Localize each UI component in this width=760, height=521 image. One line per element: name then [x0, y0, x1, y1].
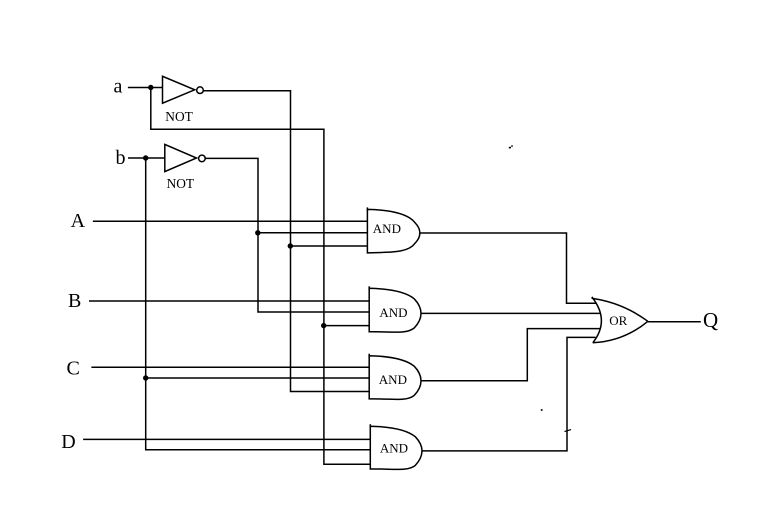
- wire input A: [93, 220, 368, 222]
- svg-text:AND: AND: [379, 372, 407, 387]
- svg-text:B: B: [68, 290, 81, 312]
- svg-text:D: D: [61, 431, 75, 453]
- svg-text:a: a: [114, 76, 123, 98]
- AND gate U2 body: [367, 209, 419, 253]
- inverter NOT2 bubble: [199, 155, 206, 162]
- wire input D: [83, 438, 371, 440]
- wire AND1 output to OR: [420, 233, 597, 303]
- wire NOT1 output to vertical: [203, 91, 369, 392]
- junction b: [143, 155, 148, 160]
- svg-text:C: C: [67, 357, 80, 379]
- AND gate U2 left-edge overshoot: [366, 207, 368, 211]
- AND gate U3 left-edge overshoot: [368, 286, 370, 290]
- wire AND3 output to OR: [421, 329, 600, 381]
- svg-text:AND: AND: [379, 305, 407, 320]
- wire b direct down to AND4: [146, 158, 371, 450]
- stray tick on AND4 wire: [565, 430, 572, 432]
- wire b branch to AND3: [146, 377, 370, 379]
- AND gate U5 body: [370, 426, 422, 469]
- OR gate U6 body: [592, 297, 648, 343]
- junction b' to AND1: [255, 230, 260, 235]
- wire b' branch to AND1: [258, 232, 368, 234]
- junction a' to AND1: [288, 243, 293, 248]
- wire a input: [128, 87, 163, 89]
- svg-text:NOT: NOT: [165, 109, 193, 124]
- stray speck 1: [509, 145, 513, 148]
- inverter NOT2 triangle: [165, 144, 197, 171]
- wire a branch to AND2: [324, 325, 370, 327]
- stray speck 2: [541, 409, 543, 411]
- wire NOT2 output to vertical: [205, 158, 369, 312]
- wire AND2 output to OR: [421, 312, 601, 314]
- junction b to AND3: [143, 375, 148, 380]
- inverter NOT1 bubble: [197, 87, 204, 94]
- wire AND4 output to OR: [422, 337, 596, 451]
- AND gate U5 left-edge overshoot: [369, 424, 371, 428]
- svg-text:Q: Q: [703, 308, 718, 332]
- svg-text:A: A: [71, 210, 86, 232]
- wire OR output: [648, 321, 701, 323]
- wire a direct down and across: [151, 88, 371, 465]
- junction a to AND2: [321, 323, 326, 328]
- svg-text:OR: OR: [609, 313, 627, 328]
- wire input C: [91, 366, 369, 368]
- svg-text:NOT: NOT: [167, 176, 195, 191]
- svg-text:AND: AND: [380, 441, 408, 456]
- AND gate U4 body: [369, 356, 421, 400]
- junction a: [148, 85, 153, 90]
- svg-text:b: b: [116, 147, 126, 169]
- wire a' branch to AND1: [290, 245, 367, 247]
- AND gate U3 body: [369, 288, 421, 332]
- AND gate U4 left-edge overshoot: [368, 354, 370, 358]
- wire b input: [128, 157, 165, 159]
- inverter NOT1 triangle: [163, 76, 195, 103]
- svg-text:AND: AND: [373, 221, 401, 236]
- wire input B: [89, 300, 369, 302]
